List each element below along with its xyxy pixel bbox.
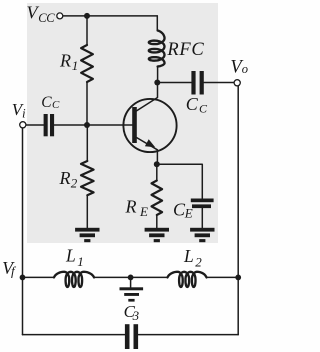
wire CC to Vo — [204, 82, 234, 84]
wire collector lead — [137, 83, 158, 111]
label C3 — [124, 302, 140, 323]
wire Vi left rail — [22, 128, 24, 334]
inductor L1 — [54, 272, 94, 287]
svg-text:L: L — [65, 246, 76, 266]
svg-text:2: 2 — [71, 175, 78, 190]
wire center tap ground stub — [130, 277, 132, 287]
wire R2 to ground — [86, 195, 88, 228]
wire base rail — [54, 124, 132, 126]
resistor R1 — [81, 45, 93, 82]
node L2/right rail junction — [235, 275, 241, 281]
svg-text:C: C — [186, 94, 199, 114]
wire RFC top lead — [156, 16, 158, 31]
wire collector to CC — [157, 82, 191, 84]
resistor R2 — [81, 161, 94, 195]
wire RFC bottom lead — [157, 67, 159, 83]
wire VCC top rail — [63, 15, 157, 17]
wire emitter to CE — [157, 164, 203, 198]
ground under R2 — [75, 228, 99, 242]
svg-text:R: R — [59, 51, 71, 71]
svg-text:E: E — [184, 205, 193, 220]
svg-text:C: C — [199, 102, 208, 116]
node emitter junction — [154, 161, 160, 167]
label RE — [125, 196, 149, 218]
label CC input — [41, 94, 60, 111]
label CC output — [186, 94, 208, 116]
node base junction — [84, 122, 90, 128]
ground under CE — [190, 228, 214, 242]
node collector junction — [154, 80, 160, 86]
inductor L2 — [168, 272, 207, 287]
transistor Q1 base bar — [132, 107, 137, 143]
capacitor CE plates — [191, 199, 214, 209]
svg-text:C: C — [41, 94, 52, 111]
svg-text:R: R — [125, 196, 137, 216]
wire Vi to capacitor — [26, 124, 43, 126]
svg-text:2: 2 — [195, 254, 202, 269]
wire R1 bottom lead — [86, 82, 88, 125]
svg-text:C: C — [52, 99, 60, 111]
svg-text:o: o — [242, 62, 248, 76]
svg-text:3: 3 — [132, 308, 140, 323]
label VCC — [27, 3, 56, 25]
label R2 — [59, 168, 78, 190]
amplifier shaded block — [27, 3, 218, 243]
wire Vo right rail — [237, 86, 239, 334]
wire bottom rail right — [138, 334, 238, 336]
svg-text:1: 1 — [77, 254, 84, 269]
wire center tap to L2 — [131, 276, 168, 278]
svg-text:RFC: RFC — [166, 40, 204, 60]
node center tap junction — [128, 275, 134, 281]
resistor RE — [152, 181, 163, 216]
label L2 — [183, 246, 202, 269]
wire bottom rail left — [23, 334, 125, 336]
wire L2 to right rail — [207, 276, 239, 278]
label Vf — [2, 258, 17, 279]
svg-text:CC: CC — [38, 11, 55, 25]
label Vi — [12, 100, 26, 121]
label R1 — [59, 51, 78, 73]
svg-text:f: f — [11, 264, 17, 279]
svg-text:L: L — [183, 246, 194, 266]
svg-text:i: i — [22, 106, 26, 121]
ground at L1-L2 center tap — [120, 287, 144, 301]
wire feedback rail left — [23, 276, 55, 278]
node VCC/R1 junction — [84, 13, 90, 19]
wire CE to ground — [201, 208, 203, 228]
inductor RFC — [149, 31, 165, 67]
capacitor CC output plates — [191, 71, 203, 95]
wire RE top lead — [156, 164, 158, 180]
transistor Q1 circle — [123, 99, 176, 152]
svg-text:R: R — [59, 168, 71, 188]
ground under RE — [145, 228, 169, 242]
capacitor CC input plates — [44, 114, 55, 136]
node junction dots — [20, 13, 242, 280]
transistor Q1 emitter arrow — [145, 139, 155, 147]
svg-text:1: 1 — [72, 58, 79, 73]
node Vf junction — [20, 275, 26, 281]
terminal Vi — [20, 122, 26, 128]
wire L1 to center tap — [94, 276, 131, 278]
svg-text:E: E — [139, 204, 148, 219]
wire R2 top lead — [86, 125, 88, 161]
wire emitter lead — [137, 138, 158, 165]
wire RE to ground — [156, 215, 158, 228]
wire R1 top lead — [86, 16, 88, 45]
capacitor C3 plates — [125, 324, 138, 349]
terminal Vo — [234, 80, 240, 86]
label L1 — [65, 246, 84, 269]
label CE — [173, 200, 193, 221]
terminal VCC — [57, 13, 63, 19]
label Vo — [230, 57, 248, 77]
